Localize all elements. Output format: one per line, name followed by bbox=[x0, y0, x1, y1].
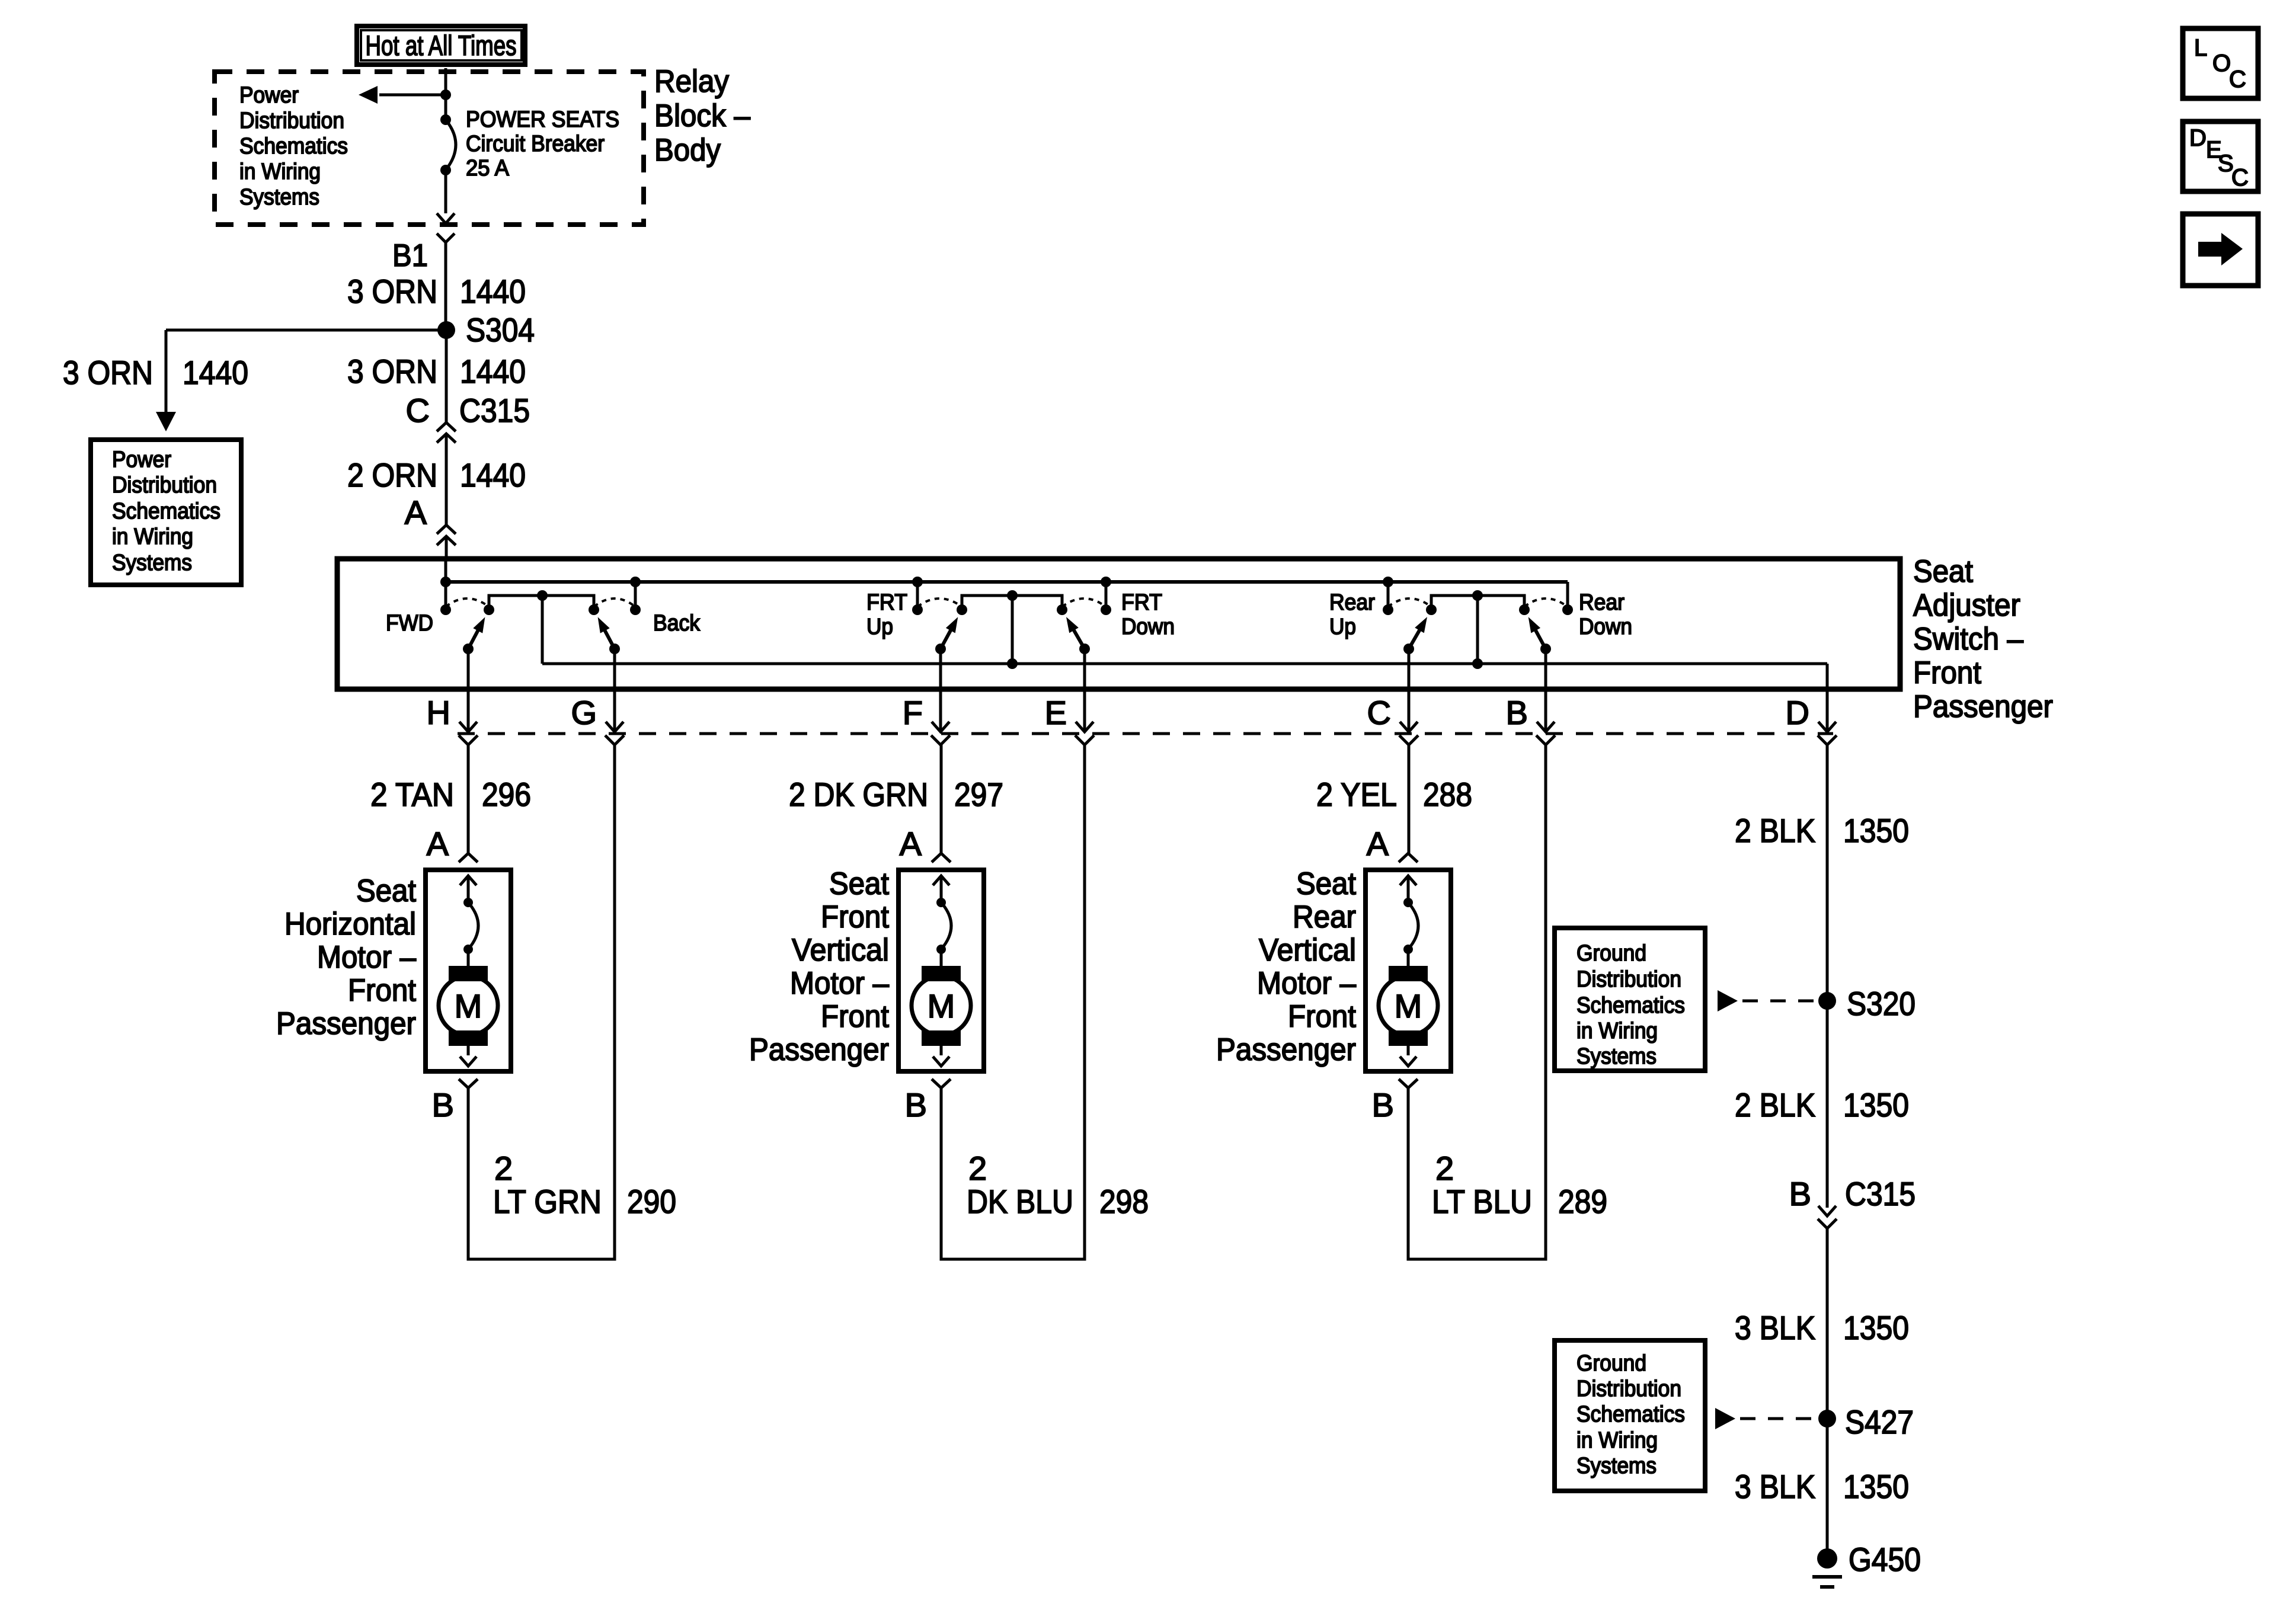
wire C315 to switch pin A bbox=[445, 434, 448, 525]
connector pin A of seat adjuster switch bbox=[405, 494, 456, 545]
svg-text:Seat: Seat bbox=[1296, 866, 1356, 901]
wire switch C to motor A bbox=[1408, 745, 1411, 853]
FWD contact stub bbox=[445, 582, 447, 610]
svg-text:Distribution: Distribution bbox=[1576, 967, 1681, 992]
ground distribution box 2 bbox=[1555, 1340, 1705, 1491]
svg-text:2: 2 bbox=[1435, 1150, 1454, 1187]
svg-text:Distribution: Distribution bbox=[239, 108, 344, 133]
svg-text:3 BLK: 3 BLK bbox=[1735, 1468, 1815, 1505]
svg-text:FWD: FWD bbox=[386, 611, 433, 636]
wire S427 to G450 bbox=[1826, 1419, 1829, 1558]
svg-text:Front: Front bbox=[821, 900, 889, 934]
svg-text:Motor –: Motor – bbox=[1257, 966, 1356, 1001]
label 3 ORN 1440 (lower) bbox=[347, 353, 526, 390]
connector pin B of seat front vertical motor bbox=[905, 1079, 951, 1124]
connector C315 pin B bbox=[1789, 1175, 1916, 1228]
wire from Hot at All Times into relay block bbox=[445, 68, 447, 120]
svg-text:Ground: Ground bbox=[1576, 941, 1646, 966]
svg-text:2 ORN: 2 ORN bbox=[347, 456, 437, 494]
svg-text:A: A bbox=[427, 825, 449, 862]
label 2 TAN 296 bbox=[370, 776, 531, 813]
svg-text:B: B bbox=[1372, 1086, 1394, 1124]
svg-text:Seat: Seat bbox=[829, 866, 889, 901]
switch arm Back (pin G) bbox=[598, 617, 620, 654]
svg-text:Up: Up bbox=[1329, 614, 1356, 639]
svg-text:1440: 1440 bbox=[460, 273, 526, 310]
svg-text:M: M bbox=[928, 987, 955, 1025]
label 3 BLK 1350 (second) bbox=[1735, 1468, 1909, 1505]
label POWER SEATS Circuit Breaker 25 A bbox=[466, 107, 619, 181]
svg-text:Body: Body bbox=[654, 133, 721, 168]
svg-text:2 TAN: 2 TAN bbox=[370, 776, 454, 813]
svg-text:FRT: FRT bbox=[1121, 590, 1162, 615]
svg-text:Systems: Systems bbox=[1576, 1454, 1657, 1478]
svg-text:B: B bbox=[905, 1086, 927, 1124]
svg-text:Schematics: Schematics bbox=[1576, 993, 1685, 1018]
svg-text:Front: Front bbox=[1288, 999, 1356, 1034]
svg-text:Rear: Rear bbox=[1293, 900, 1356, 934]
svg-text:2 BLK: 2 BLK bbox=[1735, 1086, 1815, 1124]
wire S304 to C315 bbox=[445, 330, 448, 422]
label 2 YEL 288 bbox=[1316, 776, 1472, 813]
svg-text:1350: 1350 bbox=[1843, 1086, 1909, 1124]
seat adjuster switch box bbox=[337, 559, 1900, 689]
svg-text:1350: 1350 bbox=[1843, 1309, 1909, 1346]
label 2 DK BLU 298 bbox=[967, 1150, 1149, 1220]
svg-text:Down: Down bbox=[1121, 614, 1175, 639]
svg-text:Seat: Seat bbox=[356, 873, 416, 908]
svg-text:Schematics: Schematics bbox=[1576, 1402, 1685, 1427]
ground G450 bbox=[1812, 1548, 1842, 1587]
svg-text:L: L bbox=[2194, 35, 2207, 61]
wire motor1 B loop to pin G bbox=[468, 745, 615, 1259]
power distribution schematics box bbox=[91, 440, 241, 585]
svg-text:Schematics: Schematics bbox=[112, 499, 220, 524]
svg-text:Vertical: Vertical bbox=[792, 933, 889, 968]
svg-text:A: A bbox=[1367, 825, 1389, 862]
LOC reference box bbox=[2183, 28, 2258, 98]
label 2 ORN 1440 bbox=[347, 456, 526, 494]
svg-text:Up: Up bbox=[866, 614, 893, 639]
switch FWD/Back contacts bbox=[440, 577, 641, 664]
label Rear Up bbox=[1329, 590, 1375, 639]
splice S320 bbox=[1818, 992, 1836, 1010]
svg-text:Switch –: Switch – bbox=[1913, 622, 2023, 657]
switch arm FRT Up (pin F) bbox=[935, 617, 958, 654]
svg-text:LT GRN: LT GRN bbox=[493, 1183, 602, 1220]
svg-text:289: 289 bbox=[1558, 1183, 1607, 1220]
label 3 BLK 1350 bbox=[1735, 1309, 1909, 1346]
connector pin B of seat rear vertical motor bbox=[1372, 1079, 1418, 1124]
svg-text:C: C bbox=[2231, 165, 2249, 191]
svg-text:A: A bbox=[405, 494, 427, 531]
wire switch H to motor A bbox=[467, 745, 470, 853]
svg-text:2: 2 bbox=[968, 1150, 987, 1187]
svg-text:in Wiring: in Wiring bbox=[239, 159, 321, 184]
svg-text:M: M bbox=[1395, 987, 1422, 1025]
svg-text:1440: 1440 bbox=[460, 456, 526, 494]
svg-text:Front: Front bbox=[348, 973, 416, 1008]
svg-text:1350: 1350 bbox=[1843, 1468, 1909, 1505]
label 2 LT GRN 290 bbox=[493, 1150, 676, 1220]
svg-text:Horizontal: Horizontal bbox=[284, 907, 416, 942]
wire motor2 B loop to pin E bbox=[941, 745, 1085, 1259]
svg-text:Passenger: Passenger bbox=[276, 1006, 416, 1041]
svg-text:Down: Down bbox=[1579, 614, 1632, 639]
svg-text:Power: Power bbox=[112, 447, 171, 472]
label 2 BLK 1350 bbox=[1735, 812, 1909, 849]
svg-text:1440: 1440 bbox=[183, 354, 248, 391]
splice S304 bbox=[437, 321, 455, 339]
svg-text:B: B bbox=[1789, 1175, 1811, 1212]
svg-text:C315: C315 bbox=[459, 392, 530, 429]
wire switch D to ground chain bbox=[1826, 745, 1829, 1001]
svg-text:Relay: Relay bbox=[654, 64, 729, 99]
svg-text:Rear: Rear bbox=[1579, 590, 1625, 615]
arrow to power distribution schematics bbox=[379, 94, 446, 97]
svg-text:Distribution: Distribution bbox=[1576, 1377, 1681, 1401]
label 2 LT BLU 289 bbox=[1432, 1150, 1607, 1220]
in-line connector dashed line bbox=[458, 732, 1833, 735]
svg-text:3 ORN: 3 ORN bbox=[63, 354, 153, 391]
svg-text:Front: Front bbox=[1913, 655, 1981, 690]
svg-text:296: 296 bbox=[482, 776, 531, 813]
svg-text:288: 288 bbox=[1423, 776, 1472, 813]
switch feed bus wire bbox=[445, 559, 447, 582]
svg-text:Block –: Block – bbox=[654, 98, 750, 133]
svg-text:M: M bbox=[455, 987, 482, 1025]
svg-text:in Wiring: in Wiring bbox=[1576, 1019, 1658, 1044]
svg-text:Passenger: Passenger bbox=[1216, 1032, 1356, 1067]
next-page arrow box bbox=[2183, 214, 2258, 286]
svg-text:C315: C315 bbox=[1845, 1175, 1916, 1212]
svg-text:2 YEL: 2 YEL bbox=[1316, 776, 1397, 813]
svg-text:Distribution: Distribution bbox=[112, 473, 217, 498]
svg-text:LT BLU: LT BLU bbox=[1432, 1183, 1532, 1220]
motor M: seat rear vertical motor bbox=[1366, 870, 1451, 1071]
label Rear Down bbox=[1579, 590, 1632, 639]
svg-text:S304: S304 bbox=[466, 311, 535, 348]
svg-text:3 ORN: 3 ORN bbox=[347, 353, 437, 390]
svg-text:298: 298 bbox=[1099, 1183, 1149, 1220]
label FRT Up bbox=[866, 590, 907, 639]
connector pin A of seat horizontal motor bbox=[427, 825, 478, 862]
motor M: seat front vertical motor bbox=[898, 870, 984, 1071]
label FRT Down bbox=[1121, 590, 1175, 639]
label Relay Block - Body bbox=[654, 64, 750, 168]
relay block dashed box "Relay Block - Body" bbox=[215, 72, 644, 225]
svg-text:Vertical: Vertical bbox=[1259, 933, 1356, 968]
svg-text:POWER SEATS: POWER SEATS bbox=[466, 107, 619, 132]
wire breaker to relay block output bbox=[445, 170, 447, 213]
svg-text:S427: S427 bbox=[1845, 1403, 1914, 1441]
svg-text:2: 2 bbox=[494, 1150, 513, 1187]
motor M: seat horizontal motor bbox=[426, 870, 511, 1071]
wire S320 to C315 pin B bbox=[1826, 1001, 1829, 1208]
svg-text:1440: 1440 bbox=[460, 353, 526, 390]
svg-text:Motor –: Motor – bbox=[790, 966, 889, 1001]
arrow from ground box 1 to S320 bbox=[1718, 990, 1738, 1012]
svg-text:Back: Back bbox=[653, 611, 701, 636]
svg-text:1350: 1350 bbox=[1843, 812, 1909, 849]
circuit breaker POWER SEATS 25 A bbox=[440, 114, 456, 175]
svg-text:in Wiring: in Wiring bbox=[1576, 1428, 1658, 1453]
svg-text:297: 297 bbox=[954, 776, 1003, 813]
connector pin B of seat horizontal motor bbox=[432, 1079, 478, 1124]
svg-text:Ground: Ground bbox=[1576, 1351, 1646, 1376]
wire switch F to motor A bbox=[940, 745, 943, 853]
svg-text:D: D bbox=[1786, 694, 1809, 731]
wire motor3 B loop to pin B bbox=[1408, 745, 1546, 1259]
switch FRT Up/FRT Down contacts bbox=[912, 577, 1111, 664]
svg-text:DK BLU: DK BLU bbox=[967, 1183, 1073, 1220]
svg-text:C: C bbox=[406, 392, 430, 429]
svg-text:G: G bbox=[571, 694, 597, 731]
svg-text:Passenger: Passenger bbox=[749, 1032, 889, 1067]
switch arm Rear Down (pin B) bbox=[1528, 617, 1551, 654]
svg-text:Rear: Rear bbox=[1329, 590, 1375, 615]
svg-text:2 BLK: 2 BLK bbox=[1735, 812, 1815, 849]
switch return bus to pin D bbox=[542, 662, 1827, 665]
svg-text:H: H bbox=[427, 694, 450, 731]
svg-text:F: F bbox=[903, 694, 923, 731]
label Seat Adjuster Switch - Front Passenger bbox=[1913, 554, 2053, 724]
label Power Distribution Schematics in Wiring Systems (relay block) bbox=[239, 83, 348, 210]
svg-text:C: C bbox=[2229, 66, 2246, 92]
switch arm Rear Up (pin C) bbox=[1403, 617, 1427, 654]
label 3 ORN 1440 bbox=[347, 273, 526, 310]
svg-text:3 BLK: 3 BLK bbox=[1735, 1309, 1815, 1346]
connector B1 of relay block bbox=[437, 233, 455, 242]
svg-text:in Wiring: in Wiring bbox=[112, 524, 193, 549]
svg-text:D: D bbox=[2189, 125, 2207, 151]
svg-text:B: B bbox=[432, 1086, 454, 1124]
svg-text:3 ORN: 3 ORN bbox=[347, 273, 437, 310]
svg-text:2 DK GRN: 2 DK GRN bbox=[789, 776, 928, 813]
wire B1 to S304 bbox=[445, 242, 447, 330]
svg-text:G450: G450 bbox=[1849, 1541, 1921, 1578]
label 2 BLK 1350 (second) bbox=[1735, 1086, 1909, 1124]
svg-text:25 A: 25 A bbox=[466, 156, 510, 181]
svg-text:Seat: Seat bbox=[1913, 554, 1973, 589]
svg-text:Systems: Systems bbox=[1576, 1044, 1657, 1069]
connector pin A of seat rear vertical motor bbox=[1367, 825, 1418, 862]
wire C315 to S427 bbox=[1826, 1228, 1829, 1419]
svg-text:Systems: Systems bbox=[239, 185, 319, 210]
svg-text:290: 290 bbox=[627, 1183, 676, 1220]
svg-text:Adjuster: Adjuster bbox=[1913, 588, 2020, 623]
switch Rear Up/Rear Down contacts bbox=[1383, 577, 1573, 664]
wire branch S304 to power distribution box bbox=[166, 329, 446, 332]
splice S427 bbox=[1818, 1410, 1836, 1427]
power label box "Hot at All Times" bbox=[357, 26, 525, 65]
pivot wires down to switch pins bbox=[467, 649, 470, 732]
ground distribution box 1 bbox=[1555, 928, 1705, 1071]
svg-text:Schematics: Schematics bbox=[239, 134, 348, 159]
switch arm FRT Down (pin E) bbox=[1066, 617, 1090, 654]
svg-text:Circuit Breaker: Circuit Breaker bbox=[466, 132, 605, 156]
connector C315 pin C bbox=[406, 392, 530, 443]
label 2 DK GRN 297 bbox=[789, 776, 1003, 813]
label seat rear vertical motor bbox=[1216, 866, 1356, 1067]
label seat front vertical motor bbox=[749, 866, 889, 1067]
svg-text:Passenger: Passenger bbox=[1913, 689, 2053, 724]
svg-text:S320: S320 bbox=[1847, 985, 1916, 1022]
svg-text:O: O bbox=[2212, 50, 2231, 76]
svg-text:E: E bbox=[1045, 694, 1067, 731]
arrow from ground box 2 to S427 bbox=[1715, 1408, 1735, 1429]
node: junction to power distribution arrow bbox=[440, 89, 451, 100]
svg-text:Front: Front bbox=[821, 999, 889, 1034]
svg-text:A: A bbox=[900, 825, 922, 862]
svg-text:FRT: FRT bbox=[866, 590, 907, 615]
DESC reference box bbox=[2183, 121, 2258, 191]
svg-text:B: B bbox=[1506, 694, 1528, 731]
svg-text:Motor –: Motor – bbox=[317, 940, 416, 975]
switch arm FWD (pin H) bbox=[463, 617, 485, 654]
label seat horizontal motor bbox=[276, 873, 416, 1041]
svg-text:Hot at All Times: Hot at All Times bbox=[366, 30, 517, 61]
svg-text:C: C bbox=[1367, 694, 1391, 731]
label 3 ORN 1440 (branch) bbox=[63, 354, 248, 391]
svg-text:Systems: Systems bbox=[112, 550, 192, 575]
svg-text:B1: B1 bbox=[392, 238, 428, 273]
svg-text:Power: Power bbox=[239, 83, 299, 108]
connector pin A of seat front vertical motor bbox=[900, 825, 951, 862]
